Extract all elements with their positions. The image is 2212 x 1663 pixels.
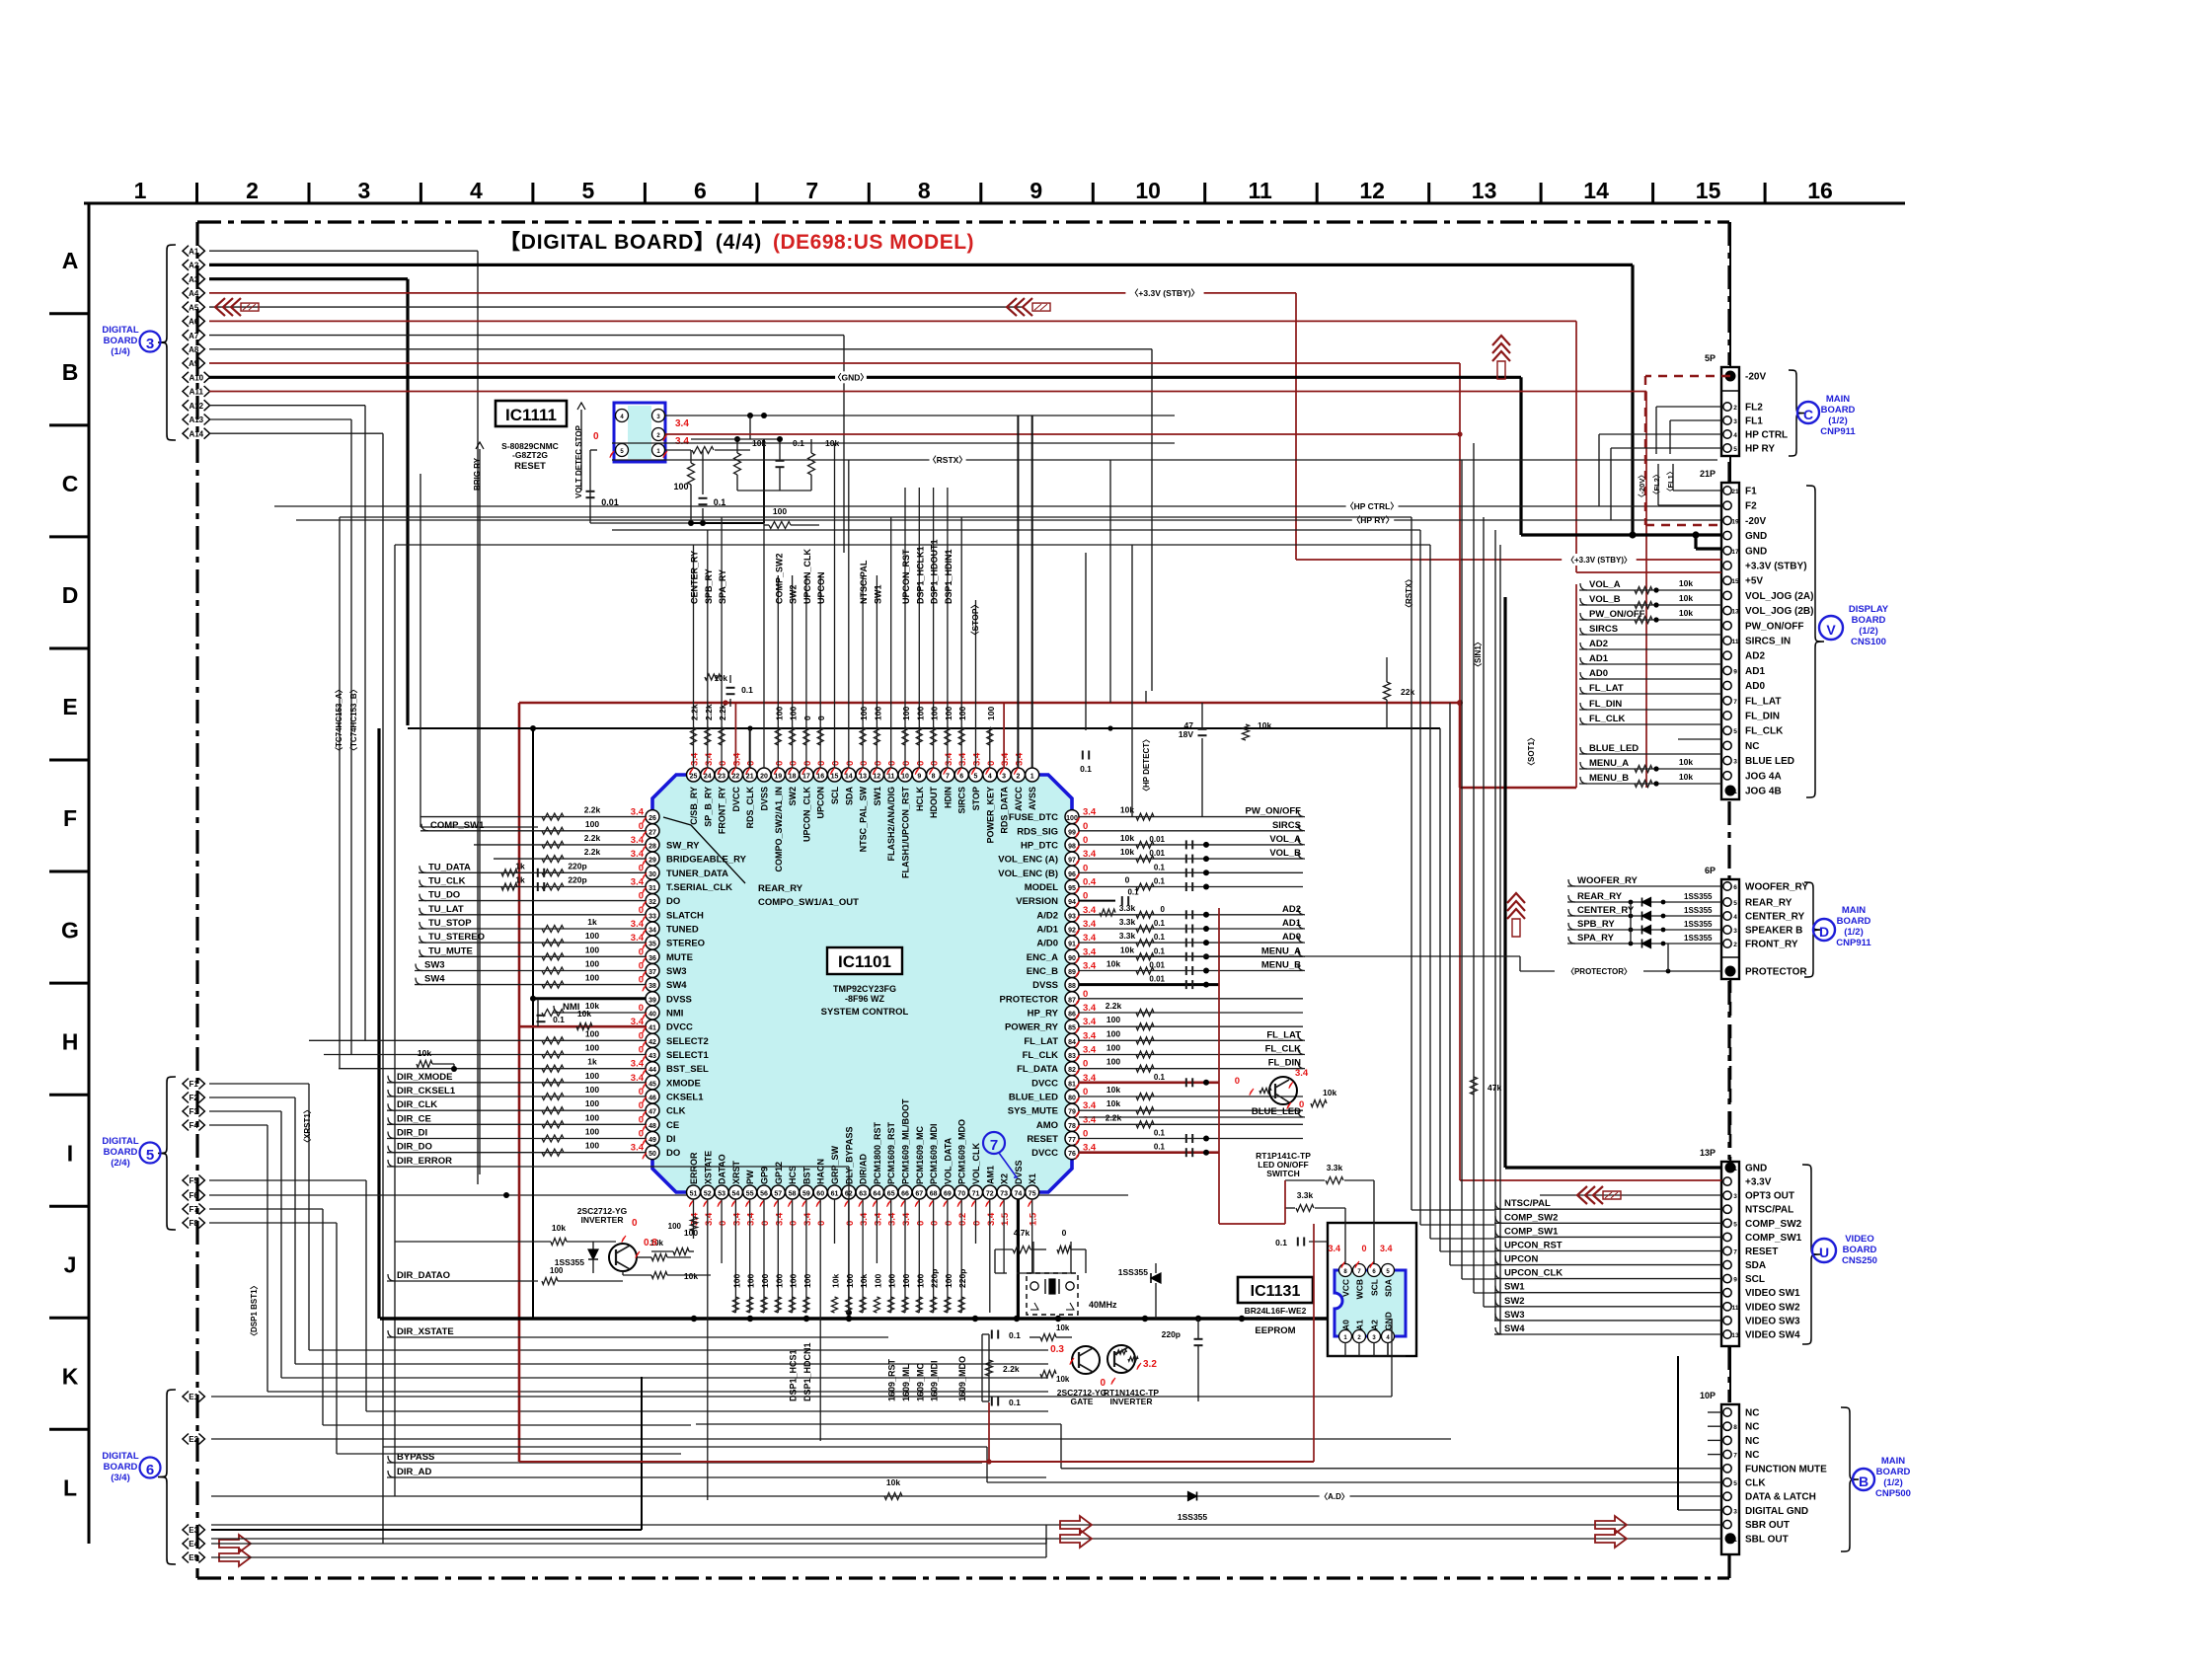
svg-text:10k: 10k	[1056, 1375, 1070, 1384]
svg-text:F2: F2	[1745, 501, 1757, 512]
svg-text:VOL_A: VOL_A	[1269, 834, 1301, 845]
svg-text:PCM1609_ML/BOOT: PCM1609_ML/BOOT	[901, 1098, 911, 1184]
svg-text:FRONT_RY: FRONT_RY	[1745, 940, 1798, 950]
svg-text:0: 0	[859, 761, 870, 766]
svg-text:BOARD: BOARD	[1837, 916, 1871, 927]
svg-text:PW_ON/OFF: PW_ON/OFF	[1745, 621, 1803, 632]
svg-text:DO: DO	[666, 1148, 680, 1159]
svg-text:F6: F6	[190, 1191, 199, 1200]
svg-text:0: 0	[845, 1221, 856, 1226]
wire E2	[211, 1438, 1451, 1440]
svg-text:-G8ZT2G: -G8ZT2G	[512, 450, 548, 460]
svg-text:19: 19	[1731, 518, 1739, 525]
svg-text:AVSS: AVSS	[1028, 787, 1037, 810]
svg-text:35: 35	[648, 942, 656, 948]
svg-text:AD2: AD2	[1589, 639, 1608, 649]
svg-text:100: 100	[901, 1274, 911, 1288]
svg-text:0: 0	[972, 1221, 983, 1226]
svg-text:0: 0	[816, 716, 826, 720]
svg-text:TU_DATA: TU_DATA	[428, 862, 471, 872]
wire pin73 X2 crystal link	[1017, 1272, 1033, 1274]
wire F6	[209, 1194, 1128, 1196]
svg-text:REAR_RY: REAR_RY	[1577, 891, 1623, 902]
wires relay rows with diodes 1SS355	[1568, 879, 1575, 886]
svg-text:20: 20	[760, 774, 768, 781]
svg-text:15: 15	[1731, 578, 1739, 585]
svg-text:AD1: AD1	[1589, 653, 1609, 664]
svg-text:100: 100	[789, 1274, 799, 1288]
svg-text:BOARD: BOARD	[104, 1147, 138, 1158]
svg-text:4: 4	[1733, 432, 1737, 439]
svg-text:10k: 10k	[1679, 578, 1693, 588]
svg-text:220p: 220p	[930, 1269, 940, 1288]
svg-text:10k: 10k	[1679, 593, 1693, 603]
svg-text:A11: A11	[190, 388, 204, 397]
resistor 10k right of cap	[1243, 724, 1250, 740]
svg-text:TU_MUTE: TU_MUTE	[428, 945, 473, 956]
svg-text:93: 93	[1068, 913, 1076, 920]
svg-text:BLUE_LED: BLUE_LED	[1252, 1106, 1301, 1117]
ref label DISPLAY BOARD (1/2) CNS100 circle V	[1806, 486, 1824, 797]
svg-text:A2: A2	[1370, 1320, 1380, 1330]
svg-text:100: 100	[585, 1127, 599, 1137]
svg-text:10P: 10P	[1700, 1391, 1716, 1400]
svg-text:10k: 10k	[1120, 847, 1134, 857]
bus wire HP RY	[296, 519, 1722, 521]
svg-text:CNS100: CNS100	[1851, 637, 1886, 647]
svg-text:40MHz: 40MHz	[1089, 1300, 1117, 1310]
svg-text:FL_LAT: FL_LAT	[1745, 696, 1781, 707]
svg-text:FL_LAT: FL_LAT	[1589, 683, 1624, 694]
svg-text:1: 1	[1733, 1537, 1737, 1544]
svg-text:BYPASS: BYPASS	[397, 1452, 434, 1463]
svg-text:100: 100	[585, 1141, 599, 1151]
svg-text:14: 14	[1583, 178, 1609, 203]
svg-text:100: 100	[585, 1112, 599, 1122]
svg-text:XRST: XRST	[731, 1160, 741, 1184]
svg-text:GATE: GATE	[1071, 1397, 1094, 1406]
svg-text:〈RSTX〉: 〈RSTX〉	[928, 455, 967, 465]
svg-text:SW2: SW2	[789, 584, 799, 604]
svg-text:100: 100	[845, 1274, 855, 1288]
svg-text:0: 0	[816, 1221, 827, 1226]
svg-text:53: 53	[718, 1191, 725, 1198]
svg-text:CKSEL1: CKSEL1	[666, 1093, 704, 1103]
svg-text:CENTER_RY: CENTER_RY	[690, 551, 700, 604]
svg-text:AD0: AD0	[1745, 681, 1765, 692]
svg-text:F8: F8	[190, 1219, 199, 1228]
svg-text:TUNER_DATA: TUNER_DATA	[666, 869, 728, 879]
svg-text:0: 0	[901, 761, 912, 766]
svg-text:8: 8	[1733, 1424, 1737, 1431]
svg-text:DVSS: DVSS	[1014, 1160, 1024, 1184]
svg-text:OPT3 OUT: OPT3 OUT	[1745, 1191, 1794, 1202]
svg-text:0.1: 0.1	[1154, 946, 1166, 955]
svg-text:54: 54	[732, 1191, 740, 1198]
svg-text:100: 100	[930, 707, 940, 720]
svg-text:100: 100	[774, 707, 784, 720]
svg-text:X2: X2	[1000, 1173, 1010, 1184]
resistor 10k pullup c	[808, 453, 815, 475]
svg-text:0: 0	[718, 1221, 728, 1226]
svg-text:3.4: 3.4	[944, 752, 954, 766]
svg-text:0.1: 0.1	[1154, 933, 1166, 942]
svg-text:10k: 10k	[1679, 608, 1693, 618]
svg-text:3.4: 3.4	[675, 418, 689, 429]
svg-text:2: 2	[246, 178, 259, 203]
IC IC1111 body	[614, 403, 665, 462]
svg-text:3.2: 3.2	[1143, 1359, 1157, 1370]
svg-text:2: 2	[1733, 405, 1737, 412]
svg-text:0.1: 0.1	[1009, 1398, 1021, 1407]
svg-text:80: 80	[1068, 1096, 1076, 1102]
svg-text:DSP1_HCS1: DSP1_HCS1	[789, 1349, 799, 1401]
svg-text:A2: A2	[189, 262, 199, 270]
svg-text:2.2k: 2.2k	[704, 704, 714, 720]
wire F2	[209, 1096, 295, 1098]
svg-text:A/D2: A/D2	[1036, 910, 1058, 921]
svg-text:3: 3	[1733, 928, 1737, 935]
svg-text:E5: E5	[189, 1553, 198, 1562]
svg-text:100: 100	[731, 1274, 741, 1288]
svg-text:88: 88	[1068, 983, 1076, 990]
svg-text:〈HP CTRL〉: 〈HP CTRL〉	[1345, 501, 1399, 511]
svg-text:〈+3.3V (STBY)〉: 〈+3.3V (STBY)〉	[1566, 555, 1632, 565]
svg-text:5: 5	[1733, 1221, 1737, 1228]
svg-text:CE: CE	[666, 1120, 679, 1131]
wires right vertical cluster	[1411, 517, 1412, 1210]
svg-text:0: 0	[887, 761, 898, 766]
svg-text:PCM1609_RST: PCM1609_RST	[886, 1121, 896, 1184]
svg-text:89: 89	[1068, 969, 1076, 976]
svg-text:0.1: 0.1	[1154, 877, 1166, 886]
svg-text:(3/4): (3/4)	[111, 1473, 130, 1483]
svg-text:DVCC: DVCC	[1031, 1148, 1058, 1159]
svg-text:〈PROTECTOR〉: 〈PROTECTOR〉	[1566, 966, 1632, 976]
svg-text:10: 10	[1135, 178, 1161, 203]
svg-text:COMPO_SW1/A1_OUT: COMPO_SW1/A1_OUT	[758, 897, 859, 908]
svg-text:FLASH2/ANA/DIG: FLASH2/ANA/DIG	[886, 787, 896, 862]
svg-text:A/D1: A/D1	[1036, 925, 1058, 936]
svg-text:5: 5	[1733, 1480, 1737, 1487]
svg-text:SDA: SDA	[844, 787, 854, 806]
svg-text:51: 51	[690, 1191, 698, 1198]
svg-text:DVCC: DVCC	[666, 1022, 693, 1033]
svg-text:0.1: 0.1	[1154, 919, 1166, 928]
bus wire HP CTRL	[274, 505, 1722, 507]
svg-text:59: 59	[802, 1191, 810, 1198]
svg-text:BOARD: BOARD	[1821, 405, 1856, 416]
svg-text:HCS: HCS	[788, 1166, 798, 1184]
svg-text:UPCON: UPCON	[1504, 1254, 1538, 1265]
svg-text:A1: A1	[1355, 1320, 1365, 1330]
svg-text:SBL OUT: SBL OUT	[1745, 1534, 1789, 1545]
svg-text:3.3k: 3.3k	[1327, 1163, 1343, 1172]
svg-text:〈XRST1〉: 〈XRST1〉	[302, 1105, 312, 1147]
svg-text:A7: A7	[189, 332, 199, 340]
svg-text:1SS355: 1SS355	[1178, 1512, 1208, 1522]
svg-text:MENU_B: MENU_B	[1261, 960, 1301, 971]
svg-text:4: 4	[988, 774, 992, 781]
svg-text:PW_ON/OFF: PW_ON/OFF	[1246, 806, 1302, 817]
svg-text:9: 9	[1733, 668, 1737, 675]
svg-text:10k: 10k	[418, 1048, 431, 1058]
wire A1	[209, 250, 478, 252]
svg-text:CNP911: CNP911	[1836, 938, 1871, 948]
wire F8	[209, 1222, 337, 1224]
ref label VIDEO BOARD CNS250 circle U	[1802, 1165, 1820, 1344]
svg-text:AVCC: AVCC	[1014, 787, 1024, 811]
svg-text:DSP1_HDIN1: DSP1_HDIN1	[944, 549, 953, 604]
svg-text:DIGITAL: DIGITAL	[102, 1451, 138, 1462]
svg-text:100: 100	[585, 945, 599, 954]
transistor Q 2SC2712-YG GATE	[1072, 1346, 1100, 1374]
svg-text:COMPO_SW2/A1_IN: COMPO_SW2/A1_IN	[774, 787, 784, 872]
IC IC1101 body system control	[652, 775, 1072, 1192]
IC IC1131 label box	[1238, 1277, 1313, 1303]
capacitor 220p right	[1194, 1338, 1203, 1340]
svg-text:PCM1609_MC: PCM1609_MC	[915, 1125, 925, 1184]
svg-text:10k: 10k	[1106, 1085, 1120, 1095]
svg-text:8: 8	[918, 178, 931, 203]
svg-text:INVERTER: INVERTER	[581, 1215, 624, 1225]
svg-text:100: 100	[1106, 1028, 1120, 1038]
svg-text:10k: 10k	[1120, 833, 1134, 843]
svg-text:A13: A13	[189, 416, 203, 424]
svg-text:46: 46	[648, 1096, 656, 1102]
IC1131 bottom pins 1 2 3 4	[1339, 1330, 1352, 1343]
svg-text:41: 41	[648, 1025, 656, 1032]
svg-text:66: 66	[901, 1191, 909, 1198]
svg-text:VIDEO SW4: VIDEO SW4	[1745, 1330, 1800, 1341]
svg-text:43: 43	[648, 1053, 656, 1060]
connector U stem	[1729, 1346, 1731, 1402]
svg-text:92: 92	[1068, 928, 1076, 935]
blue circle 7 X2	[983, 1132, 1005, 1154]
svg-text:0: 0	[930, 761, 941, 766]
svg-text:84: 84	[1068, 1039, 1076, 1046]
svg-text:100: 100	[585, 819, 599, 829]
wires into B	[1708, 1411, 1721, 1413]
svg-text:WOOFER_RY: WOOFER_RY	[1745, 882, 1808, 893]
svg-text:2.2k: 2.2k	[1003, 1364, 1020, 1374]
svg-text:1: 1	[1030, 774, 1034, 781]
svg-text:52: 52	[704, 1191, 712, 1198]
svg-text:0: 0	[1062, 1228, 1067, 1238]
svg-text:5: 5	[1733, 446, 1737, 453]
svg-text:FUNCTION MUTE: FUNCTION MUTE	[1745, 1464, 1827, 1474]
svg-text:31: 31	[648, 885, 656, 892]
diode 1SS355 left	[592, 1242, 594, 1273]
svg-text:SIRCS: SIRCS	[1589, 624, 1618, 635]
wire vertical cluster left	[339, 517, 341, 1069]
svg-text:1k: 1k	[587, 1057, 597, 1067]
svg-text:SPB_RY: SPB_RY	[1577, 919, 1615, 930]
bus black y738	[408, 727, 1440, 729]
svg-text:FL_DIN: FL_DIN	[1589, 699, 1622, 710]
svg-text:1SS355: 1SS355	[1684, 892, 1713, 901]
svg-text:COMP_SW1: COMP_SW1	[430, 820, 485, 831]
svg-text:11: 11	[1732, 1305, 1739, 1312]
svg-text:0.1: 0.1	[1154, 863, 1166, 871]
svg-text:DSP1_HDCN1: DSP1_HDCN1	[802, 1342, 812, 1401]
svg-text:10k: 10k	[1679, 772, 1693, 782]
svg-text:U: U	[1819, 1245, 1829, 1260]
connector group E1-E5 DIGITAL BOARD (3/4)	[183, 1392, 189, 1402]
wire BLUE_LED row	[1079, 1116, 1303, 1118]
svg-text:10k: 10k	[1120, 945, 1134, 954]
svg-text:0.3: 0.3	[1050, 1344, 1064, 1355]
fat arrow up red mid	[1507, 893, 1525, 903]
svg-text:3: 3	[1002, 774, 1006, 781]
svg-text:16: 16	[816, 774, 824, 781]
fat arrow up red top	[1492, 336, 1510, 345]
svg-text:BLUE_LED: BLUE_LED	[1009, 1093, 1058, 1103]
svg-text:27: 27	[648, 829, 656, 836]
wire 5P stem	[1729, 222, 1731, 367]
svg-text:〈SOT1〉: 〈SOT1〉	[1526, 733, 1536, 770]
svg-text:10k: 10k	[684, 1271, 698, 1281]
svg-text:FL_DATA: FL_DATA	[1017, 1064, 1058, 1075]
svg-text:96: 96	[1068, 871, 1076, 878]
diode 1SS355 mid	[1151, 1273, 1161, 1283]
wire DATA & LATCH with diode	[211, 1495, 1721, 1497]
svg-text:7: 7	[1733, 1453, 1737, 1460]
svg-text:10: 10	[901, 774, 909, 781]
svg-text:BOARD: BOARD	[104, 336, 138, 346]
svg-text:1609_ML: 1609_ML	[901, 1363, 911, 1401]
svg-text:V: V	[1826, 622, 1836, 638]
svg-text:100: 100	[789, 707, 799, 720]
wire A12	[209, 405, 365, 407]
svg-text:VOL_B: VOL_B	[1589, 594, 1621, 605]
svg-text:86: 86	[1068, 1012, 1076, 1019]
crystal X 40MHz	[1027, 1273, 1078, 1315]
svg-text:VOL_ENC (A): VOL_ENC (A)	[998, 855, 1058, 866]
svg-text:F2: F2	[190, 1094, 199, 1102]
svg-text:17: 17	[1731, 549, 1739, 556]
ref label MAIN BOARD (1/2) CNP500 circle B	[1841, 1407, 1859, 1551]
svg-text:0: 0	[944, 1221, 954, 1226]
svg-text:6: 6	[146, 1462, 154, 1478]
svg-text:1.5: 1.5	[1000, 1212, 1011, 1226]
net PROTECTOR wire from IC	[1079, 955, 1520, 957]
svg-text:10k: 10k	[1679, 757, 1693, 767]
svg-text:NC: NC	[1745, 1436, 1759, 1447]
svg-text:12: 12	[1359, 178, 1385, 203]
svg-text:15: 15	[831, 774, 839, 781]
svg-text:100: 100	[585, 973, 599, 983]
svg-text:16: 16	[1807, 178, 1833, 203]
svg-text:3.4: 3.4	[731, 1212, 742, 1226]
border frame ruler top	[84, 202, 1905, 205]
capacitor 0.1 near pin20	[726, 687, 735, 689]
svg-text:X1: X1	[1028, 1173, 1037, 1184]
svg-text:SW4: SW4	[666, 980, 687, 991]
svg-text:100: 100	[1106, 1043, 1120, 1053]
svg-text:BST: BST	[801, 1166, 811, 1184]
svg-text:IC1101: IC1101	[838, 952, 891, 971]
transistor Q 2SC2712-YG INVERTER left	[609, 1244, 637, 1271]
svg-text:28: 28	[648, 843, 656, 850]
svg-text:10k: 10k	[1258, 720, 1271, 730]
svg-text:5P: 5P	[1705, 353, 1716, 363]
svg-text:SW3: SW3	[666, 966, 687, 977]
svg-text:DVCC: DVCC	[731, 787, 741, 812]
svg-text:FL_CLK: FL_CLK	[1023, 1050, 1059, 1061]
svg-text:AM1: AM1	[985, 1166, 995, 1184]
wire DVSS thick vertical rail	[377, 728, 380, 1319]
svg-text:100: 100	[774, 1274, 784, 1288]
wire F5	[209, 1179, 366, 1181]
svg-text:64: 64	[874, 1191, 881, 1198]
svg-text:J: J	[64, 1251, 77, 1277]
IC IC1131 body	[1335, 1270, 1406, 1336]
svg-text:57: 57	[774, 1191, 782, 1198]
svg-text:NC: NC	[1745, 741, 1759, 752]
connector 10P MAIN BOARD CNP500 (B)	[1721, 1404, 1739, 1554]
svg-text:PCM1609_MDO: PCM1609_MDO	[957, 1119, 967, 1184]
svg-text:0: 0	[831, 761, 842, 766]
svg-text:〈FL2〉: 〈FL2〉	[1651, 471, 1661, 498]
svg-text:COMP_SW2: COMP_SW2	[1745, 1219, 1802, 1230]
svg-text:91: 91	[1068, 942, 1076, 948]
svg-text:F: F	[63, 805, 77, 831]
svg-text:100: 100	[684, 1228, 698, 1238]
svg-text:SIRCS_IN: SIRCS_IN	[1745, 637, 1791, 647]
red dashed -20V route	[1645, 375, 1730, 377]
svg-text:5: 5	[146, 1147, 154, 1164]
svg-text:3.4: 3.4	[704, 752, 715, 766]
svg-text:A: A	[62, 248, 79, 273]
svg-text:DIR_DATAO: DIR_DATAO	[397, 1270, 450, 1281]
svg-text:NTSC_PAL_SW: NTSC_PAL_SW	[859, 786, 869, 852]
svg-text:ENC_A: ENC_A	[1027, 952, 1058, 963]
svg-text:VIDEO SW1: VIDEO SW1	[1745, 1288, 1800, 1299]
IC1111 wire pin2 red	[665, 433, 1460, 435]
wire A13	[209, 418, 351, 420]
svg-text:11: 11	[887, 774, 895, 781]
svg-text:1609_MDI: 1609_MDI	[930, 1360, 940, 1401]
svg-text:〈TC74HC153_A〉: 〈TC74HC153_A〉	[334, 685, 343, 755]
svg-text:RDS_CLK: RDS_CLK	[745, 787, 755, 829]
wire BYPASS	[388, 1456, 395, 1463]
svg-text:HP_RY: HP_RY	[1028, 1009, 1059, 1020]
connector 13P VIDEO BOARD CNS250 (U)	[1721, 1162, 1739, 1346]
svg-text:FL_CLK: FL_CLK	[1589, 714, 1626, 724]
svg-text:VOL_JOG (2B): VOL_JOG (2B)	[1745, 606, 1813, 617]
svg-text:0.1: 0.1	[1009, 1330, 1021, 1340]
svg-text:+3.3V: +3.3V	[1745, 1177, 1772, 1188]
svg-text:87: 87	[1068, 997, 1076, 1004]
svg-text:A3: A3	[189, 275, 199, 284]
svg-text:10k: 10k	[1106, 959, 1120, 969]
svg-text:HDOUT: HDOUT	[929, 787, 939, 818]
svg-text:100: 100	[585, 959, 599, 969]
wire F4	[209, 1124, 267, 1126]
svg-text:45: 45	[648, 1081, 656, 1088]
svg-text:3.4: 3.4	[690, 752, 701, 766]
resistor 10k below	[651, 1272, 667, 1279]
svg-text:POWER_KEY: POWER_KEY	[985, 787, 995, 844]
svg-text:E: E	[62, 694, 77, 719]
svg-text:13: 13	[859, 774, 867, 781]
svg-text:10k: 10k	[859, 1274, 869, 1288]
svg-text:B: B	[1859, 1474, 1869, 1489]
svg-text:(1/2): (1/2)	[1828, 416, 1848, 426]
wire F1 XRST1	[209, 1083, 309, 1085]
svg-text:0: 0	[632, 1218, 638, 1229]
